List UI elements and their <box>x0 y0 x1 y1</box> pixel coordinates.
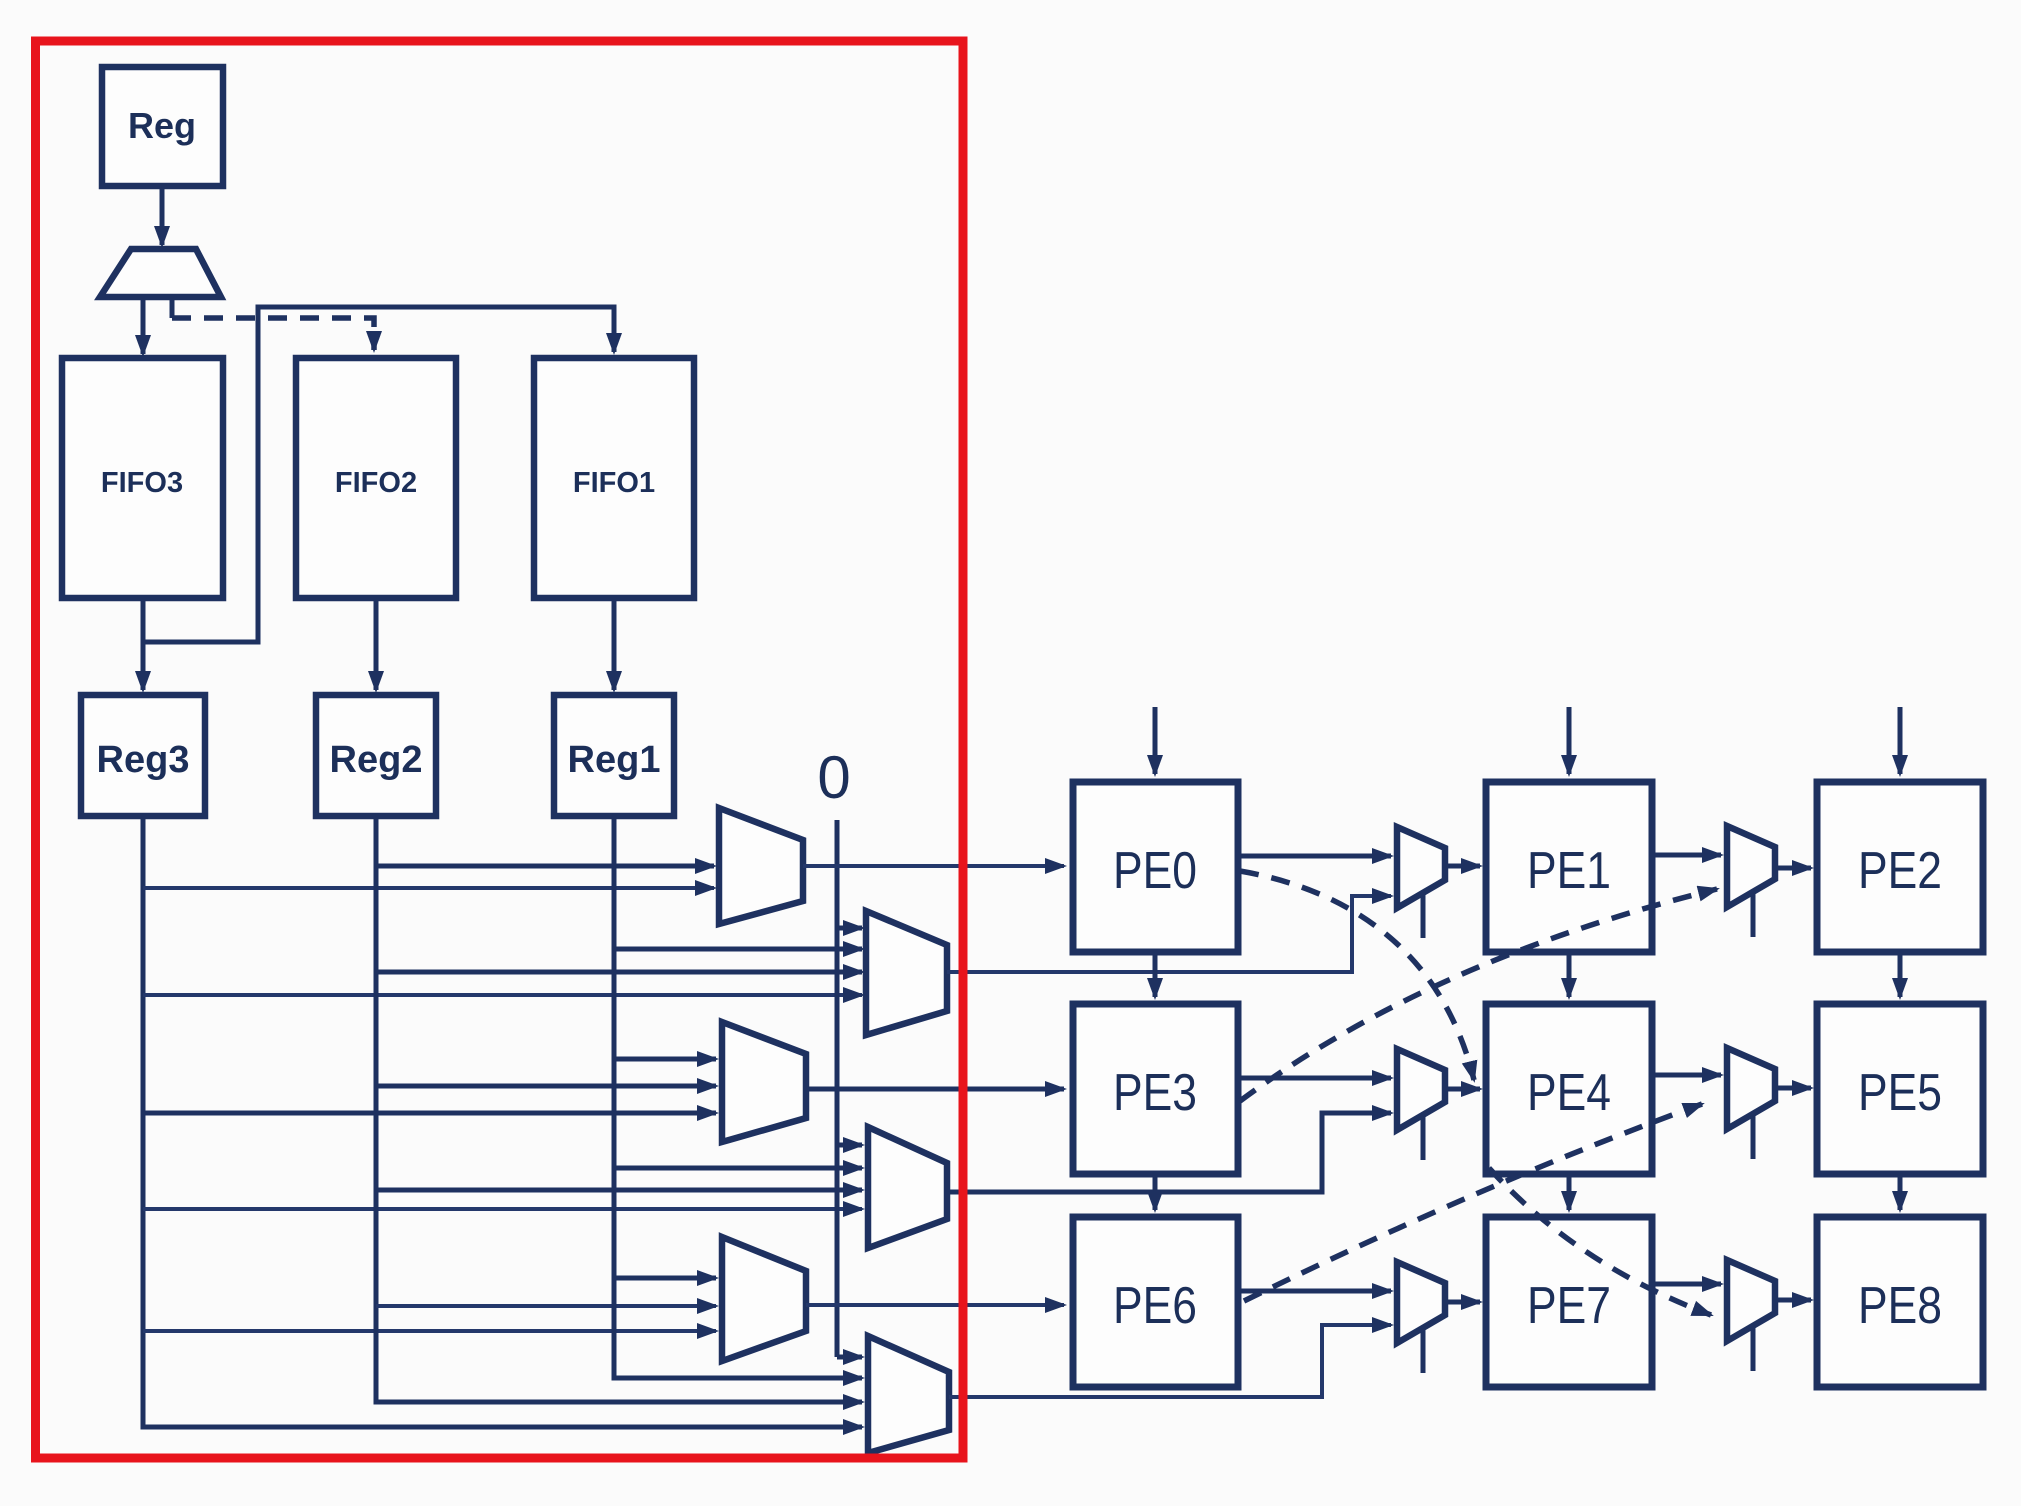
wire Reg3 to mux5 <box>143 1329 716 1333</box>
svg-text:Reg3: Reg3 <box>97 739 190 781</box>
wire PE3 to muxB1 <box>1238 1076 1391 1081</box>
dashed wire PE4 to muxM78 <box>1489 1168 1711 1315</box>
wire Reg2 vertical bus <box>376 816 862 1402</box>
mux M45 before PE5 <box>1727 1048 1775 1159</box>
mux B0 before PE1 <box>1397 827 1445 938</box>
demux under Reg <box>100 249 221 297</box>
wire mux2 to muxB0 <box>947 896 1391 972</box>
wire muxB1 to PE4 <box>1445 1087 1480 1092</box>
wire Reg2 to mux3 <box>376 1084 716 1089</box>
wire demux right leg <box>170 297 175 318</box>
wire muxM78 to PE8 <box>1775 1298 1811 1303</box>
svg-text:PE6: PE6 <box>1113 1277 1197 1335</box>
wire PE5 to PE8 <box>1898 1174 1903 1210</box>
mux M78 before PE8 <box>1727 1260 1775 1371</box>
wire FIFO3 feedback to FIFO1 <box>143 307 614 642</box>
wire input arrow above PE0 <box>1153 707 1158 774</box>
svg-text:Reg2: Reg2 <box>330 739 423 781</box>
wire PE4 to PE7 <box>1567 1174 1572 1210</box>
PE0 <box>1073 782 1238 952</box>
register Reg1 <box>554 695 674 816</box>
mux B1 before PE4 <box>1397 1049 1445 1160</box>
wire Reg2 to mux1 <box>376 864 714 869</box>
svg-text:PE2: PE2 <box>1858 842 1942 900</box>
wire Reg2 to mux2 <box>376 970 862 975</box>
svg-text:FIFO3: FIFO3 <box>101 467 183 499</box>
wire Reg3 to mux2 <box>143 993 862 997</box>
wire Reg to demux <box>160 186 165 245</box>
wire PE7 to muxM78 <box>1652 1282 1721 1287</box>
svg-text:FIFO1: FIFO1 <box>573 467 655 499</box>
wire Reg3 to mux1 <box>143 886 714 890</box>
wire mux4 to muxB1 <box>947 1113 1391 1192</box>
wire PE3 to PE6 <box>1153 1174 1158 1210</box>
register Reg2 <box>316 695 436 816</box>
register Reg <box>102 67 223 186</box>
wire PE4 to muxM45 <box>1652 1073 1721 1078</box>
wire FIFO1 to Reg1 <box>612 598 617 690</box>
wire PE1 to muxM12 <box>1652 853 1721 858</box>
wire Reg3 to mux4 <box>143 1207 862 1211</box>
wire Reg1 to mux3 <box>614 1057 716 1062</box>
wire Reg1 to mux2 <box>614 947 862 952</box>
mux M12 before PE2 <box>1727 826 1775 937</box>
mux2 psum select row0 <box>866 911 947 1035</box>
wire PE6 to muxB2 <box>1238 1289 1391 1294</box>
svg-text:PE8: PE8 <box>1858 1277 1942 1335</box>
PE8 <box>1817 1217 1983 1387</box>
wire FIFO2 to Reg2 <box>374 598 379 690</box>
PE5 <box>1817 1004 1983 1174</box>
svg-text:Reg: Reg <box>128 105 196 146</box>
dashed wire PE6 to muxM45 <box>1244 1104 1702 1301</box>
PE2 <box>1817 782 1983 952</box>
wire PE1 to PE4 <box>1567 952 1572 997</box>
mux3 weight select row1 <box>722 1022 806 1142</box>
wire Reg2 to mux4 <box>376 1188 862 1193</box>
wire 0 to mux4 <box>837 1143 862 1148</box>
svg-text:PE1: PE1 <box>1527 842 1611 900</box>
red boundary box <box>36 41 964 1458</box>
wire mux1 to PE0 <box>803 864 1064 868</box>
svg-text:FIFO2: FIFO2 <box>335 467 417 499</box>
wire mux5 to PE6 <box>806 1303 1064 1307</box>
wire demux to FIFO3 <box>141 297 146 354</box>
svg-text:PE3: PE3 <box>1113 1064 1197 1122</box>
svg-text:PE0: PE0 <box>1113 842 1197 900</box>
wire FIFO3 to Reg3 <box>141 598 146 690</box>
mux1 weight select row0 <box>719 808 803 924</box>
wire Reg1 vertical bus <box>614 816 862 1378</box>
dashed wire PE0 to PE4 input <box>1240 871 1474 1080</box>
wire constant 0 vertical <box>835 820 840 1357</box>
PE6 <box>1073 1217 1238 1387</box>
wire Reg3 vertical bus <box>143 816 862 1427</box>
wire PE0 to PE3 <box>1153 952 1158 997</box>
register Reg3 <box>81 695 205 816</box>
FIFO1 <box>534 358 694 598</box>
mux B2 before PE7 <box>1397 1262 1445 1373</box>
wire 0 to mux6 <box>837 1355 862 1360</box>
wire input arrow above PE2 <box>1898 707 1903 774</box>
svg-text:PE4: PE4 <box>1527 1064 1611 1122</box>
PE7 <box>1486 1217 1652 1387</box>
mux4 psum select row1 <box>868 1127 947 1248</box>
wire muxM45 to PE5 <box>1775 1086 1811 1091</box>
wire Reg2 to mux5 <box>376 1304 716 1308</box>
dashed wire demux to FIFO2 <box>172 318 374 350</box>
svg-text:Reg1: Reg1 <box>568 739 661 781</box>
wire mux6 to muxB2 <box>949 1325 1391 1397</box>
wire PE2 to PE5 <box>1898 952 1903 997</box>
wire Reg3 to mux3 <box>143 1111 716 1116</box>
PE4 <box>1486 1004 1652 1174</box>
wire muxB0 to PE1 <box>1445 864 1480 869</box>
wire Reg1 to mux5 <box>614 1276 716 1281</box>
wire input arrow above PE1 <box>1567 707 1572 774</box>
svg-text:PE5: PE5 <box>1858 1064 1942 1122</box>
wire Reg1 to mux4 <box>614 1166 862 1171</box>
mux6 psum select row2 <box>868 1336 949 1453</box>
wire 0 to mux2 <box>837 926 862 931</box>
dashed wire PE3 to muxM12 <box>1240 889 1717 1101</box>
svg-text:PE7: PE7 <box>1527 1277 1611 1335</box>
FIFO3 <box>62 358 223 598</box>
mux5 weight select row2 <box>722 1237 806 1361</box>
wire mux3 to PE3 <box>806 1087 1064 1092</box>
PE3 <box>1073 1004 1238 1174</box>
PE1 <box>1486 782 1652 952</box>
FIFO2 <box>296 358 456 598</box>
wire PE0 to muxB0 <box>1238 854 1391 859</box>
svg-text:0: 0 <box>817 744 850 811</box>
wire muxM12 to PE2 <box>1775 866 1811 871</box>
wire muxB2 to PE7 <box>1445 1300 1480 1305</box>
